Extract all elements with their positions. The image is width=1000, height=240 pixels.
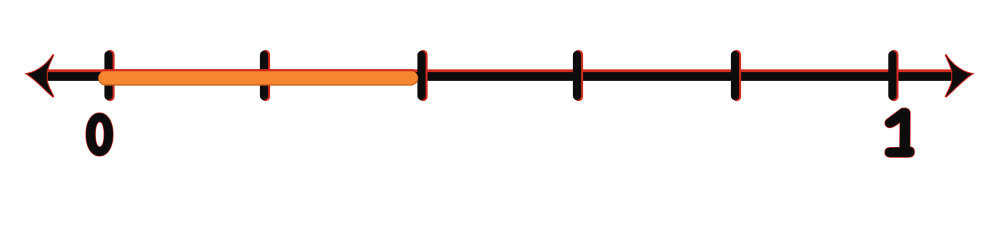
wire: main horizontal line [40,72,960,81]
tick 2 (value 1/5) [264,55,266,97]
tick 4 (value 3/5) [577,55,579,97]
wire: red edge above highlighted segment [103,69,414,71]
tick 5 (value 4/5) [735,55,737,97]
left arrowhead [27,55,54,98]
tick 3 (value 2/5) [422,55,424,97]
wire: main horizontal line red under-stroke [45,69,955,80]
tick 6 (value 1) [892,55,894,97]
orange highlighted segment 0 to 2/5 [106,70,411,85]
label "1" at last tick [885,108,914,157]
label "0" at first tick [86,113,113,156]
right arrowhead [946,55,973,98]
tick 1 (value 0) [109,55,111,97]
